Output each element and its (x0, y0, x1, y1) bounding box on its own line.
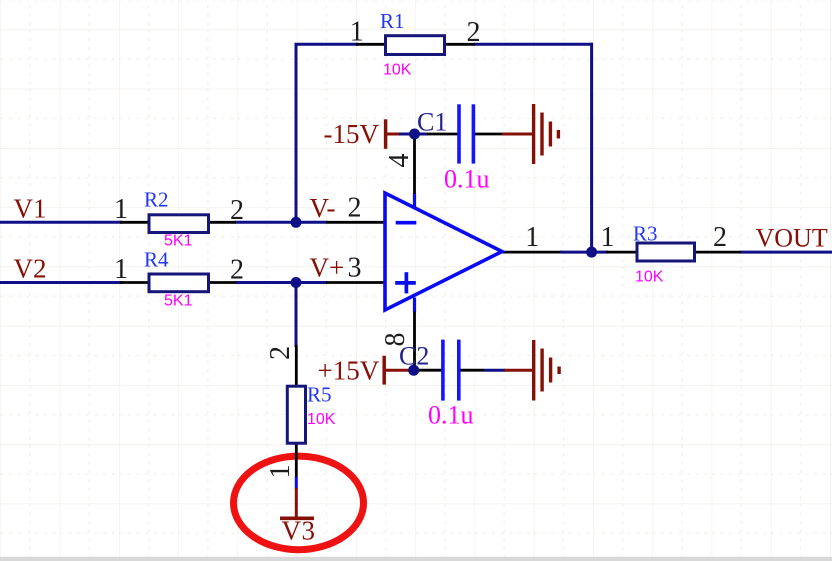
svg-text:0.1u: 0.1u (428, 401, 474, 430)
svg-text:R1: R1 (380, 9, 405, 33)
U1 pin 8 blue stub (413, 298, 416, 313)
junction dot V- node (291, 217, 302, 228)
svg-text:VOUT: VOUT (756, 224, 828, 253)
svg-text:V-: V- (310, 193, 336, 223)
svg-text:1: 1 (525, 222, 539, 253)
power port -15V (386, 119, 400, 149)
node V- wire from R2 to junction (235, 221, 327, 224)
svg-text:R3: R3 (633, 222, 658, 246)
junction dot V+ node (291, 277, 302, 288)
op-amp U1 (326, 193, 562, 313)
U1 inverting input minus symbol (396, 221, 417, 225)
U1 pin 4 blue stub (413, 193, 416, 208)
wire V1 input (0, 221, 122, 224)
wire -15V to C1 junction (399, 133, 428, 136)
svg-text:R4: R4 (144, 248, 169, 272)
resistor R3 (606, 243, 741, 261)
junction dot C1 node (409, 129, 420, 140)
wire feedback top horizontal left of R1 (295, 43, 359, 46)
svg-text:V+: V+ (310, 253, 345, 283)
svg-text:2: 2 (265, 346, 296, 360)
svg-text:10K: 10K (635, 269, 664, 286)
svg-text:R2: R2 (144, 188, 169, 212)
svg-text:-15V: -15V (324, 119, 380, 149)
svg-text:V3: V3 (282, 516, 316, 546)
svg-text:4: 4 (384, 154, 415, 168)
svg-text:1: 1 (601, 222, 615, 253)
annotation red ellipse around V3 (234, 456, 364, 550)
ground (C2 side) (534, 340, 559, 401)
wire feedback right vertical (590, 43, 593, 252)
wire R3 to VOUT edge (740, 251, 832, 254)
junction dot C2 node (408, 365, 419, 376)
svg-text:2: 2 (230, 195, 244, 226)
svg-text:V1: V1 (14, 194, 47, 224)
wire C2 to ground (navy) (484, 369, 505, 372)
wire pin8 to C2 junction (413, 312, 416, 371)
wire V+ node down to R5 (295, 283, 298, 348)
svg-text:2: 2 (713, 222, 727, 253)
resistor R1 (356, 36, 475, 55)
wire V2 input (0, 281, 122, 284)
svg-text:10K: 10K (307, 411, 336, 428)
wire feedback top horizontal right of R1 (474, 43, 593, 46)
svg-text:1: 1 (265, 465, 296, 479)
U1 pin 3 lead (326, 281, 386, 284)
capacitor C1 (427, 104, 503, 163)
wire op-amp output to junction (560, 251, 593, 254)
svg-text:2: 2 (230, 255, 244, 286)
resistor R2 (120, 215, 236, 233)
wire pin4 to C1 junction (413, 134, 416, 194)
node V+ wire from R4 to junction (235, 281, 327, 284)
power port V3 (280, 477, 314, 519)
svg-text:2: 2 (348, 193, 362, 224)
wire C1 to ground (502, 133, 534, 136)
svg-text:5K1: 5K1 (164, 293, 193, 310)
svg-text:1: 1 (114, 194, 128, 225)
svg-text:1: 1 (114, 254, 128, 285)
junction dot output node (586, 247, 597, 258)
svg-text:10K: 10K (383, 62, 412, 79)
U1 pin 1 output lead (502, 251, 562, 254)
svg-text:3: 3 (348, 252, 362, 283)
power port +15V (384, 356, 411, 385)
svg-text:1: 1 (350, 16, 364, 47)
U1 non-inverting input plus symbol (395, 281, 416, 285)
svg-text:2: 2 (467, 17, 481, 48)
svg-text:C1: C1 (417, 108, 447, 137)
wire feedback left vertical (V- node up) (295, 44, 298, 222)
svg-text:0.1u: 0.1u (444, 165, 490, 194)
svg-text:C2: C2 (399, 342, 429, 371)
resistor R4 (120, 274, 236, 292)
wire C2 to ground (dark red) (504, 369, 534, 372)
svg-text:+15V: +15V (318, 355, 380, 385)
svg-text:V2: V2 (14, 254, 47, 284)
wire output junction to R3 (592, 251, 608, 254)
svg-text:R5: R5 (307, 383, 332, 407)
capacitor C2 (419, 340, 484, 401)
ground (C1 side) (534, 104, 559, 164)
resistor R5 (287, 345, 305, 478)
U1 pin 2 lead (326, 221, 386, 224)
U1 triangle body (385, 193, 502, 310)
